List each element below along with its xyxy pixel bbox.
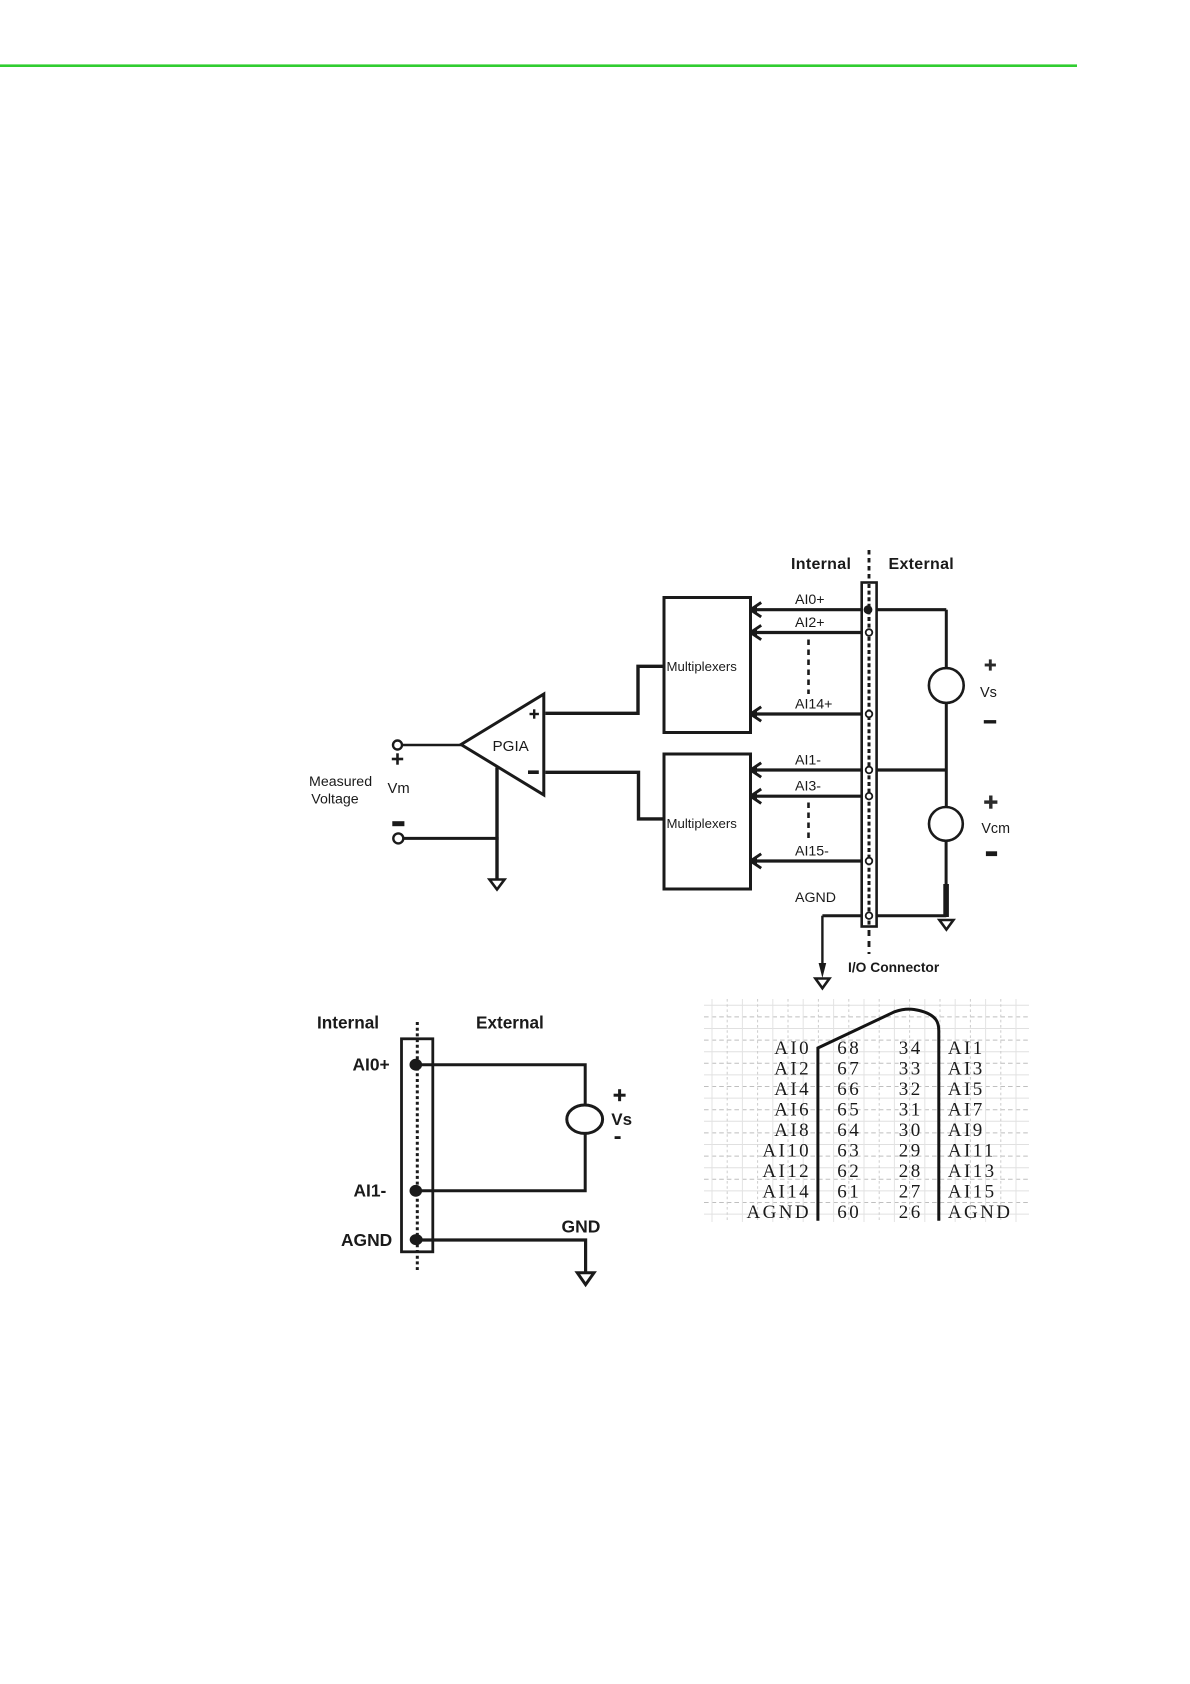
terminal circle + (measured voltage)	[393, 741, 402, 750]
svg-text:AI1: AI1	[948, 1038, 985, 1059]
plus mark of Vs (bottom)	[614, 1089, 626, 1101]
svg-text:61: 61	[837, 1182, 861, 1203]
dashed boundary line (below connector)	[868, 930, 871, 954]
minus mark above lower terminal	[392, 821, 404, 826]
svg-text:27: 27	[899, 1182, 923, 1203]
svg-text:AI13: AI13	[948, 1161, 997, 1182]
svg-text:Multiplexers: Multiplexers	[667, 816, 738, 831]
svg-text:Vs: Vs	[980, 685, 997, 701]
terminal circle - (measured voltage)	[393, 833, 403, 843]
svg-text:AGND: AGND	[795, 890, 836, 906]
svg-text:AI2: AI2	[774, 1059, 811, 1080]
svg-text:AI15-: AI15-	[795, 844, 829, 860]
svg-text:External: External	[889, 556, 955, 573]
svg-text:Vm: Vm	[388, 781, 410, 797]
svg-text:Internal: Internal	[317, 1012, 379, 1032]
minus mark of Vs	[984, 720, 996, 723]
svg-text:64: 64	[837, 1120, 861, 1141]
ground symbol GND (bottom)	[577, 1273, 594, 1285]
svg-text:AI10: AI10	[762, 1141, 811, 1162]
wire AI1-	[750, 768, 946, 771]
wire AGND down arrow stem	[821, 916, 823, 972]
wire PGIA output to + terminal	[402, 744, 461, 747]
plus mark of Vcm	[984, 796, 997, 809]
wire Vs to AI1- (bottom)	[420, 1133, 585, 1190]
svg-text:31: 31	[899, 1100, 923, 1121]
svg-text:29: 29	[899, 1141, 923, 1162]
voltage source Vs (top diagram)	[929, 668, 964, 703]
svg-text:AGND: AGND	[341, 1230, 392, 1250]
svg-text:28: 28	[899, 1161, 923, 1182]
svg-text:AI4: AI4	[774, 1079, 811, 1100]
svg-text:AI1-: AI1-	[795, 753, 821, 769]
svg-text:AGND: AGND	[747, 1202, 812, 1223]
PGIA op-amp triangle	[461, 694, 544, 795]
arrowhead into multiplexer AI1-	[751, 763, 762, 777]
connector pin circle AGND	[866, 912, 873, 919]
svg-text:AI14+: AI14+	[795, 697, 832, 713]
wire PGIA + input to upper multiplexer	[545, 666, 664, 713]
svg-text:AI3-: AI3-	[795, 779, 821, 795]
I/O connector box	[862, 583, 877, 927]
wire PGIA - input to lower multiplexer	[545, 772, 664, 819]
ground symbol under PGIA	[490, 880, 505, 890]
svg-text:66: 66	[837, 1079, 861, 1100]
arrowhead into multiplexer AI3-	[751, 789, 762, 803]
svg-text:I/O Connector: I/O Connector	[848, 960, 940, 975]
svg-text:Internal: Internal	[791, 556, 851, 573]
wire - terminal to ground stem	[404, 837, 499, 840]
external vertical wire AI0+ to Vs	[945, 610, 948, 669]
svg-text:AI12: AI12	[762, 1161, 811, 1182]
svg-text:PGIA: PGIA	[493, 738, 530, 755]
connector outline left line	[818, 1009, 939, 1221]
svg-text:AI5: AI5	[948, 1079, 985, 1100]
wire AI14+	[750, 712, 866, 715]
pin dot AGND	[410, 1234, 423, 1245]
PGIA minus input mark	[528, 770, 539, 774]
multiplexer box 1 (upper)	[664, 598, 751, 733]
svg-text:AI3: AI3	[948, 1059, 985, 1080]
svg-text:AI0+: AI0+	[353, 1054, 390, 1074]
svg-text:Multiplexers: Multiplexers	[667, 659, 738, 674]
connector pin circle AI2+	[866, 629, 873, 636]
wire Vs to AI1-	[945, 703, 948, 770]
filled arrowhead on AGND stem	[819, 963, 827, 978]
connector pin circle AI1-	[866, 767, 873, 774]
minus mark of Vs (bottom)	[615, 1136, 621, 1139]
connector pin circle AI15-	[866, 858, 873, 865]
wire AI0+	[750, 608, 946, 611]
wire AI3-	[750, 795, 866, 798]
svg-text:Vcm: Vcm	[981, 821, 1010, 837]
graph paper grid	[704, 999, 1029, 1222]
voltage source Vs (bottom diagram)	[567, 1105, 603, 1133]
svg-text:Vs: Vs	[611, 1110, 632, 1129]
thick wire end above external ground	[943, 884, 949, 917]
svg-text:AI7: AI7	[948, 1100, 985, 1121]
svg-text:AGND: AGND	[948, 1202, 1013, 1223]
wire AI0+ to Vs (bottom)	[420, 1065, 585, 1105]
plus mark of Vs	[985, 659, 996, 670]
svg-text:AI0: AI0	[774, 1038, 811, 1059]
vertical dots between AI2+ and AI14+	[807, 640, 810, 695]
svg-text:External: External	[476, 1012, 544, 1032]
plus mark below terminal	[392, 753, 403, 764]
wire AGND	[822, 914, 946, 917]
connector pin circle AI3-	[866, 793, 873, 800]
junction dot AI0+ at connector	[864, 605, 873, 614]
green header rule	[0, 64, 1077, 67]
arrowhead into multiplexer AI0+	[751, 603, 762, 617]
svg-text:63: 63	[837, 1141, 861, 1162]
I/O connector inner dashed line	[868, 584, 871, 925]
ground symbol AGND (left)	[815, 979, 829, 989]
dashed boundary line (above connector)	[868, 550, 871, 582]
svg-text:26: 26	[899, 1202, 923, 1223]
arrowhead into multiplexer AI14+	[751, 707, 762, 721]
svg-text:AI8: AI8	[774, 1120, 811, 1141]
wire Vcm to external ground	[945, 841, 948, 917]
svg-text:67: 67	[837, 1059, 861, 1080]
wire AI2+	[750, 631, 866, 634]
PGIA plus input mark	[530, 709, 539, 718]
svg-text:AI1-: AI1-	[354, 1181, 387, 1201]
svg-text:Voltage: Voltage	[311, 792, 358, 808]
connector box (bottom diagram)	[402, 1039, 433, 1252]
svg-text:AI0+: AI0+	[795, 592, 825, 608]
svg-text:AI2+: AI2+	[795, 615, 825, 631]
wire AI15-	[750, 859, 866, 862]
svg-text:32: 32	[899, 1079, 923, 1100]
pin dot AI0+	[410, 1059, 423, 1071]
svg-text:AI11: AI11	[948, 1141, 996, 1162]
voltage source Vcm	[929, 807, 963, 841]
svg-text:AI14: AI14	[762, 1182, 811, 1203]
connector pin circle AI14+	[866, 711, 873, 718]
svg-text:33: 33	[899, 1059, 923, 1080]
arrowhead into multiplexer AI2+	[751, 625, 762, 639]
svg-text:AI6: AI6	[774, 1100, 811, 1121]
vertical dots between AI3- and AI15-	[807, 803, 810, 842]
wire AGND to GND (bottom)	[420, 1240, 586, 1272]
wire AI1- to Vcm	[945, 770, 948, 807]
pin dot AI1-	[410, 1185, 423, 1197]
svg-text:68: 68	[837, 1038, 861, 1059]
svg-text:GND: GND	[562, 1216, 601, 1236]
minus mark of Vcm	[986, 851, 997, 856]
svg-text:Measured: Measured	[309, 774, 372, 790]
svg-text:30: 30	[899, 1120, 923, 1141]
svg-text:AI15: AI15	[948, 1182, 997, 1203]
svg-text:62: 62	[837, 1161, 861, 1182]
svg-text:65: 65	[837, 1100, 861, 1121]
svg-text:60: 60	[837, 1202, 861, 1223]
svg-text:34: 34	[899, 1038, 923, 1059]
svg-text:AI9: AI9	[948, 1120, 985, 1141]
ground stem under PGIA	[495, 768, 498, 880]
ground symbol external (right)	[939, 920, 953, 930]
multiplexer box 2 (lower)	[664, 754, 751, 889]
dotted boundary line (bottom diagram)	[416, 1022, 419, 1270]
arrowhead into multiplexer AI15-	[751, 854, 762, 868]
